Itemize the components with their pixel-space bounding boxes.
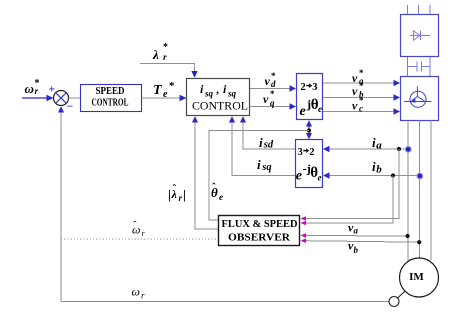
motor IM — [400, 258, 439, 297]
wire: va to observer — [301, 233, 408, 238]
svg-text:ω: ω — [132, 285, 140, 299]
wire: ib to observer — [301, 176, 394, 226]
wire: DC link — [408, 57, 431, 76]
diode symbol D1 — [410, 31, 430, 40]
wire: vd* — [250, 85, 296, 91]
node: va label — [348, 221, 359, 236]
wire: speed feedback vertical — [58, 106, 64, 301]
svg-text:T: T — [153, 83, 163, 98]
wire: Te* torque command — [142, 95, 187, 101]
svg-text:|: | — [183, 187, 186, 202]
node: ib label — [372, 159, 382, 176]
svg-text:ˆ: ˆ — [173, 183, 177, 195]
wire: ia to observer — [301, 149, 400, 221]
svg-text:e: e — [318, 104, 322, 114]
node: vb junction dot — [417, 240, 421, 244]
svg-text:i: i — [257, 157, 261, 172]
node: isd label — [259, 135, 274, 151]
wire: flux magnitude lambda_hat to control — [192, 116, 218, 229]
node: ib junction dot — [391, 173, 395, 177]
wire: ib measurement — [323, 172, 419, 178]
svg-text:,: , — [216, 82, 219, 96]
node: isq label — [257, 157, 272, 173]
node: omega_r* speed reference label — [25, 78, 40, 97]
svg-text:OBSERVER: OBSERVER — [228, 232, 291, 244]
node: va junction dot — [406, 234, 410, 238]
svg-text:r: r — [141, 291, 145, 301]
svg-text:v: v — [352, 99, 358, 113]
wire: measured speed omega_r — [61, 301, 389, 303]
speed sensor — [389, 290, 407, 307]
wire: vq* — [250, 103, 296, 109]
node: vc* label — [352, 96, 364, 114]
wire: estimated speed omega_hat (dotted) — [61, 238, 218, 240]
node: vq* label — [263, 89, 275, 108]
wire: ia measurement — [323, 146, 408, 152]
node: lambda_r* flux reference label — [152, 42, 168, 63]
svg-text:FLUX & SPEED: FLUX & SPEED — [222, 218, 298, 230]
wire: vb* — [323, 94, 400, 100]
svg-text:CONTROL: CONTROL — [192, 99, 248, 113]
svg-text:e: e — [219, 192, 223, 202]
wire: summing junction to speed control — [69, 97, 81, 99]
svg-text:q: q — [270, 98, 275, 108]
wire: theta_e_hat from observer to transforms — [209, 131, 309, 221]
svg-text:2: 2 — [309, 147, 314, 158]
node: vd* label — [265, 71, 277, 89]
wire: phase c line to motor — [430, 121, 432, 261]
svg-text:CONTROL: CONTROL — [92, 98, 129, 109]
current sensor on phase b — [417, 173, 423, 179]
wire: theta_e to both transform blocks (double arrow) — [306, 120, 312, 139]
node: va* label — [352, 68, 364, 86]
svg-text:IM: IM — [409, 271, 424, 283]
node: theta_e junction dot — [307, 128, 311, 132]
capacitor C (DC link) — [417, 62, 422, 72]
wire: vb to observer — [301, 238, 420, 243]
node: ia junction dot — [397, 147, 401, 151]
svg-text:v: v — [352, 71, 358, 85]
svg-text:sd: sd — [263, 140, 274, 151]
wire: isq feedback — [229, 116, 295, 175]
svg-text:λ: λ — [152, 47, 159, 62]
block: SPEED CONTROL — [81, 85, 142, 112]
svg-text:3: 3 — [312, 82, 317, 93]
svg-text:2: 2 — [301, 82, 306, 93]
node: omega_r label — [132, 285, 146, 301]
svg-text:sq: sq — [227, 89, 237, 99]
node: ia label — [372, 135, 382, 152]
block: inverter — [401, 77, 439, 121]
svg-text:ˆ: ˆ — [133, 220, 137, 232]
transistor symbol Q (inverter) — [404, 86, 432, 107]
block: rectifier — [401, 15, 439, 57]
wire: vc* — [323, 108, 400, 114]
svg-text:+: + — [49, 84, 56, 96]
svg-text:SPEED: SPEED — [96, 86, 125, 97]
svg-text:v: v — [352, 84, 358, 98]
svg-text:e: e — [318, 173, 322, 183]
node: vb label — [348, 239, 359, 256]
node: theta_e_hat label — [211, 182, 223, 203]
svg-text:ω: ω — [25, 81, 34, 96]
svg-text:v: v — [265, 74, 271, 88]
wire: va* — [323, 80, 400, 86]
svg-text:b: b — [354, 245, 359, 255]
svg-text:b: b — [376, 164, 382, 176]
wire: phase b line to motor — [418, 121, 420, 259]
svg-text:*: * — [163, 42, 168, 53]
svg-text:r: r — [163, 53, 167, 63]
svg-text:sq: sq — [204, 89, 214, 99]
svg-text:*: * — [169, 80, 175, 92]
summing junction — [54, 91, 69, 106]
wire: AC supply stubs — [408, 5, 431, 14]
wire: lambda_r* flux reference — [140, 64, 198, 78]
svg-text:a: a — [376, 140, 382, 152]
current sensor on phase a — [405, 146, 411, 152]
svg-text:−: − — [67, 101, 74, 113]
wire: speed reference input — [22, 95, 54, 101]
svg-text:e: e — [163, 89, 168, 100]
wire: phase a line to motor — [407, 121, 409, 262]
block: isq,isq CONTROL — [187, 79, 250, 116]
svg-text:e: e — [296, 169, 302, 184]
node: omega_hat label — [132, 220, 146, 239]
svg-text:c: c — [359, 104, 363, 114]
svg-text:sq: sq — [261, 162, 271, 173]
block: 3->2 coordinate transform — [296, 140, 323, 188]
svg-text:3: 3 — [298, 147, 303, 158]
svg-text:|: | — [168, 187, 171, 202]
node: vb* label — [352, 81, 364, 100]
svg-text:d: d — [271, 79, 276, 89]
block: 2->3 coordinate transform — [297, 74, 323, 120]
svg-text:a: a — [354, 226, 359, 236]
node: Te* label — [153, 80, 175, 100]
svg-text:i: i — [259, 135, 263, 150]
block: FLUX & SPEED OBSERVER — [219, 216, 300, 246]
svg-text:e: e — [300, 104, 306, 119]
wire: isd feedback — [240, 116, 295, 149]
svg-text:ˆ: ˆ — [212, 182, 216, 194]
svg-text:v: v — [263, 92, 269, 106]
svg-text:r: r — [35, 87, 39, 97]
svg-text:r: r — [179, 193, 183, 203]
node: lambda_hat magnitude label — [168, 183, 186, 203]
